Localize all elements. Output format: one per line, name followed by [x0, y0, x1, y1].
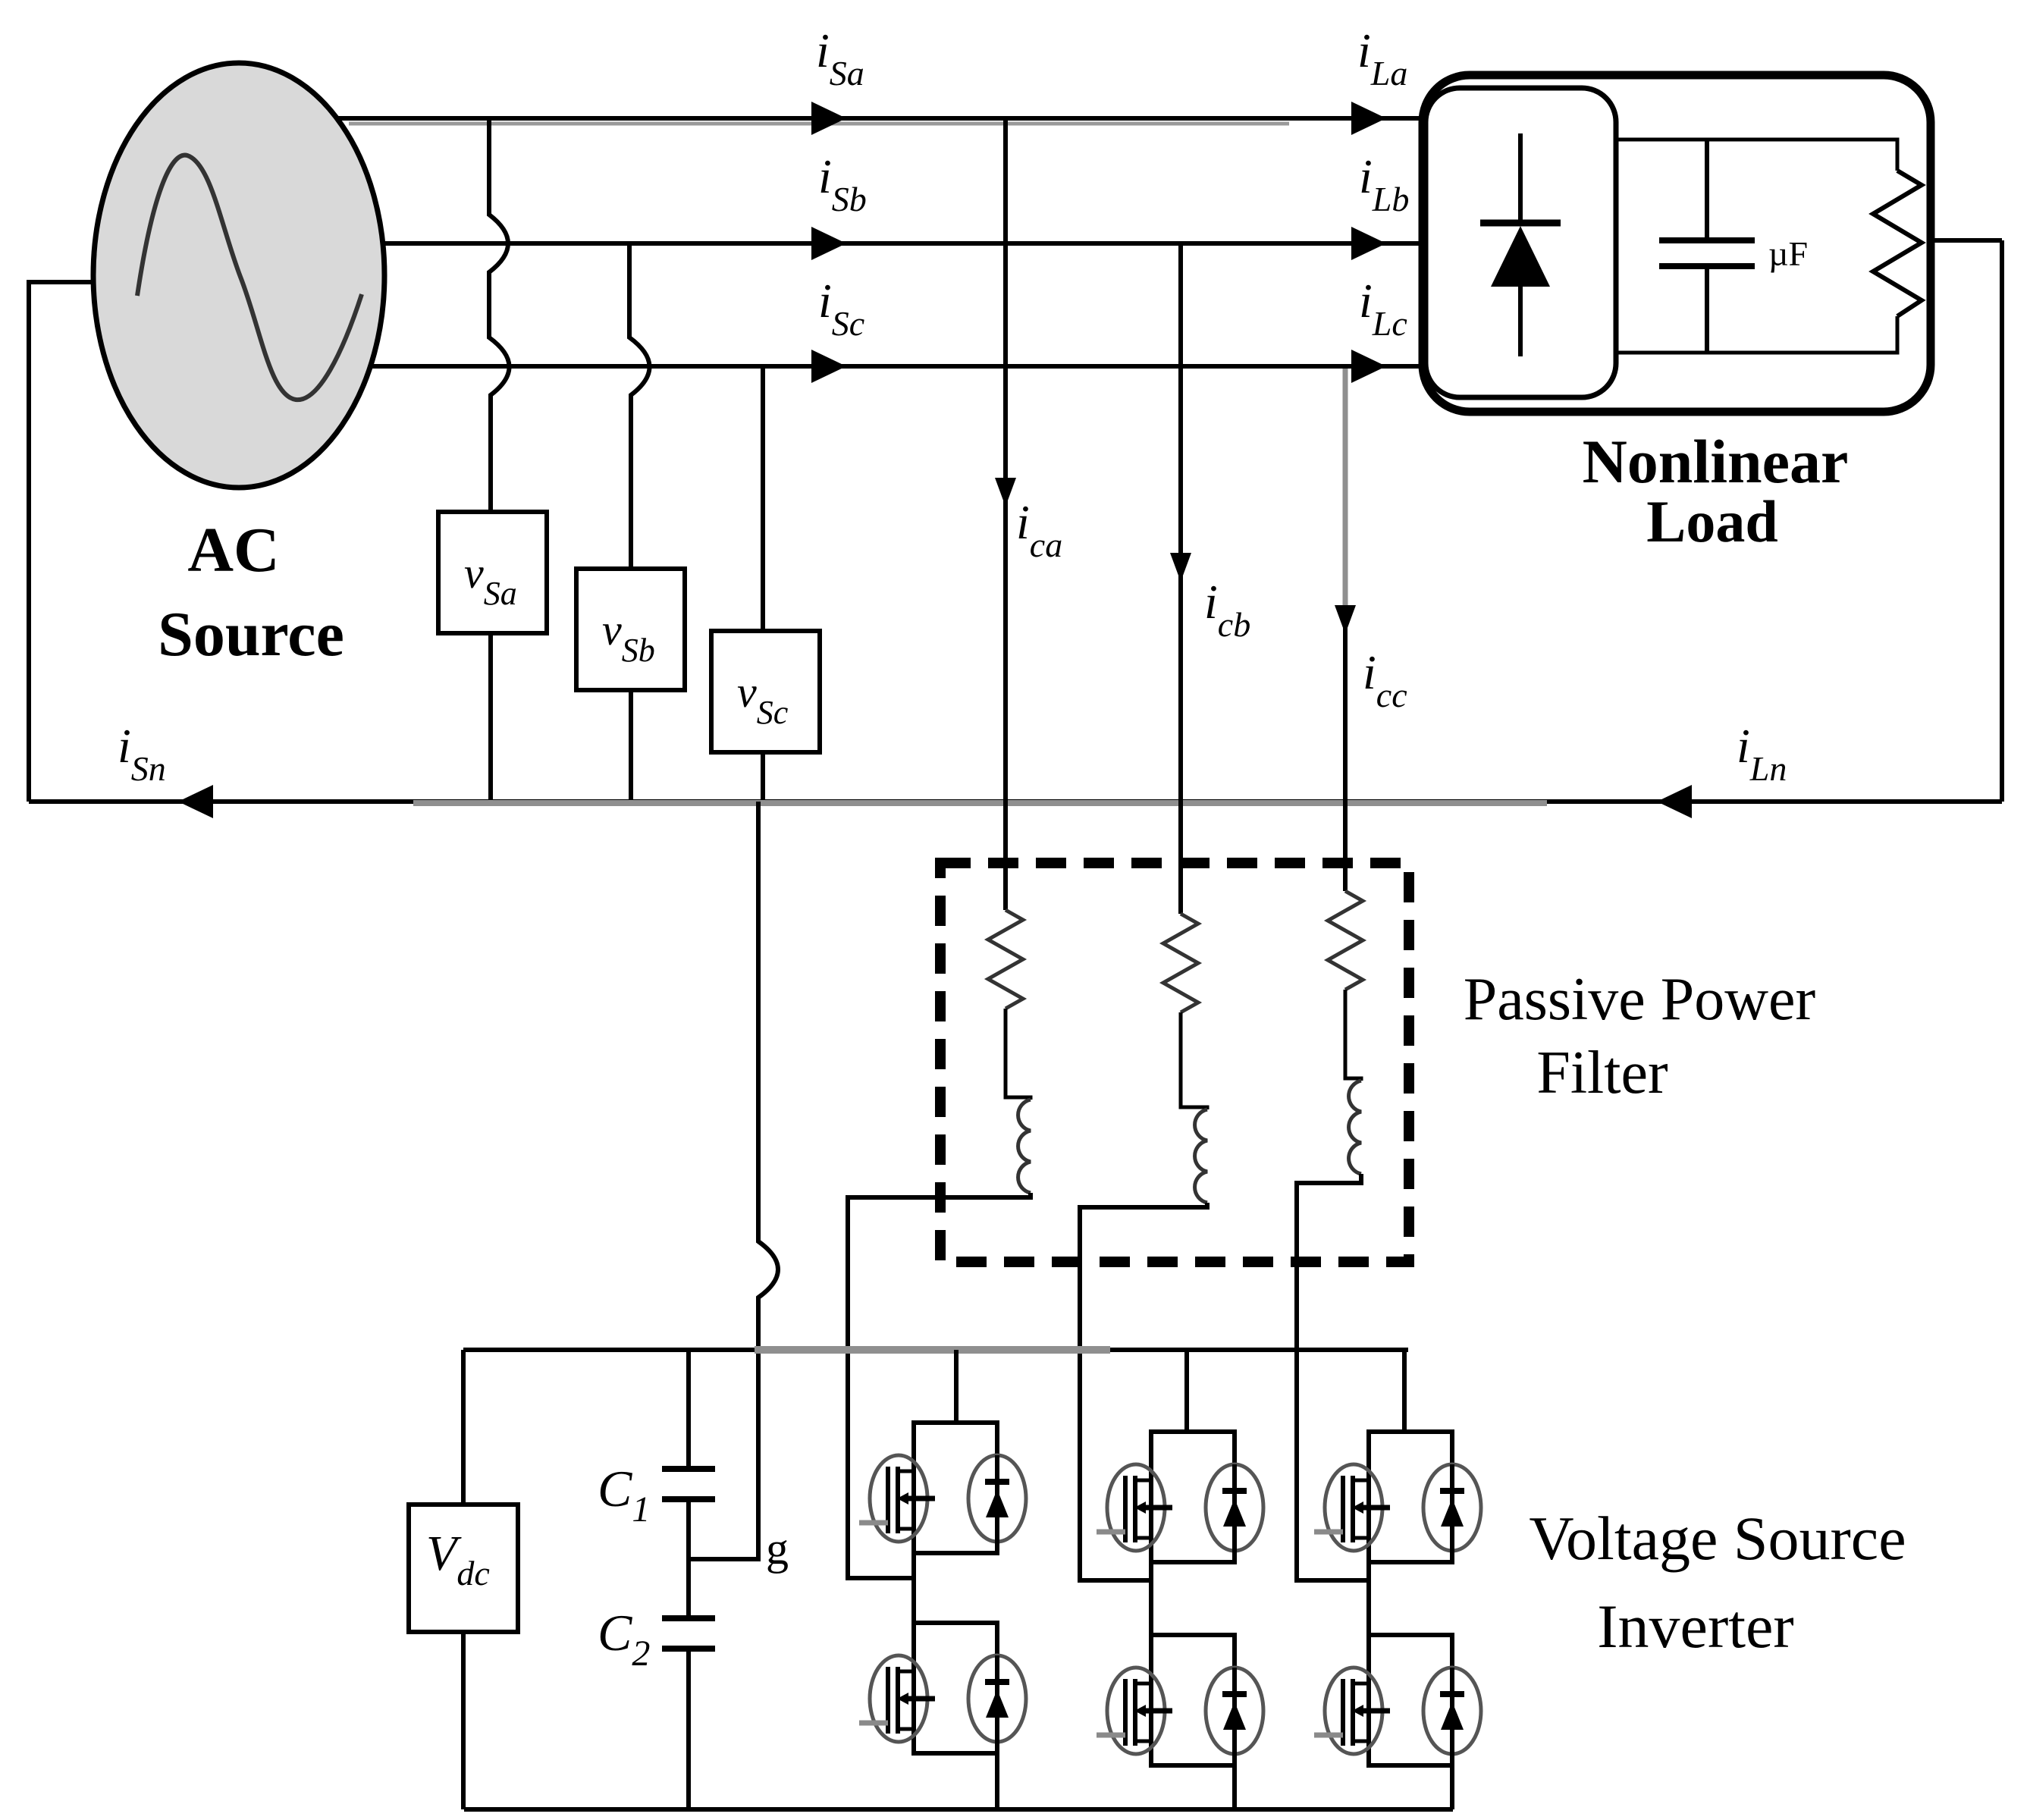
- svg-text:AC: AC: [187, 515, 279, 585]
- svg-text:g: g: [766, 1523, 789, 1574]
- svg-text:Load: Load: [1646, 488, 1777, 554]
- svg-text:Filter: Filter: [1536, 1040, 1668, 1106]
- svg-text:Voltage Source: Voltage Source: [1529, 1504, 1906, 1573]
- svg-text:Passive Power: Passive Power: [1464, 966, 1815, 1033]
- svg-text:Nonlinear: Nonlinear: [1583, 427, 1849, 496]
- svg-text:Inverter: Inverter: [1597, 1592, 1794, 1661]
- svg-text:µF: µF: [1768, 234, 1808, 273]
- svg-text:Source: Source: [158, 599, 344, 670]
